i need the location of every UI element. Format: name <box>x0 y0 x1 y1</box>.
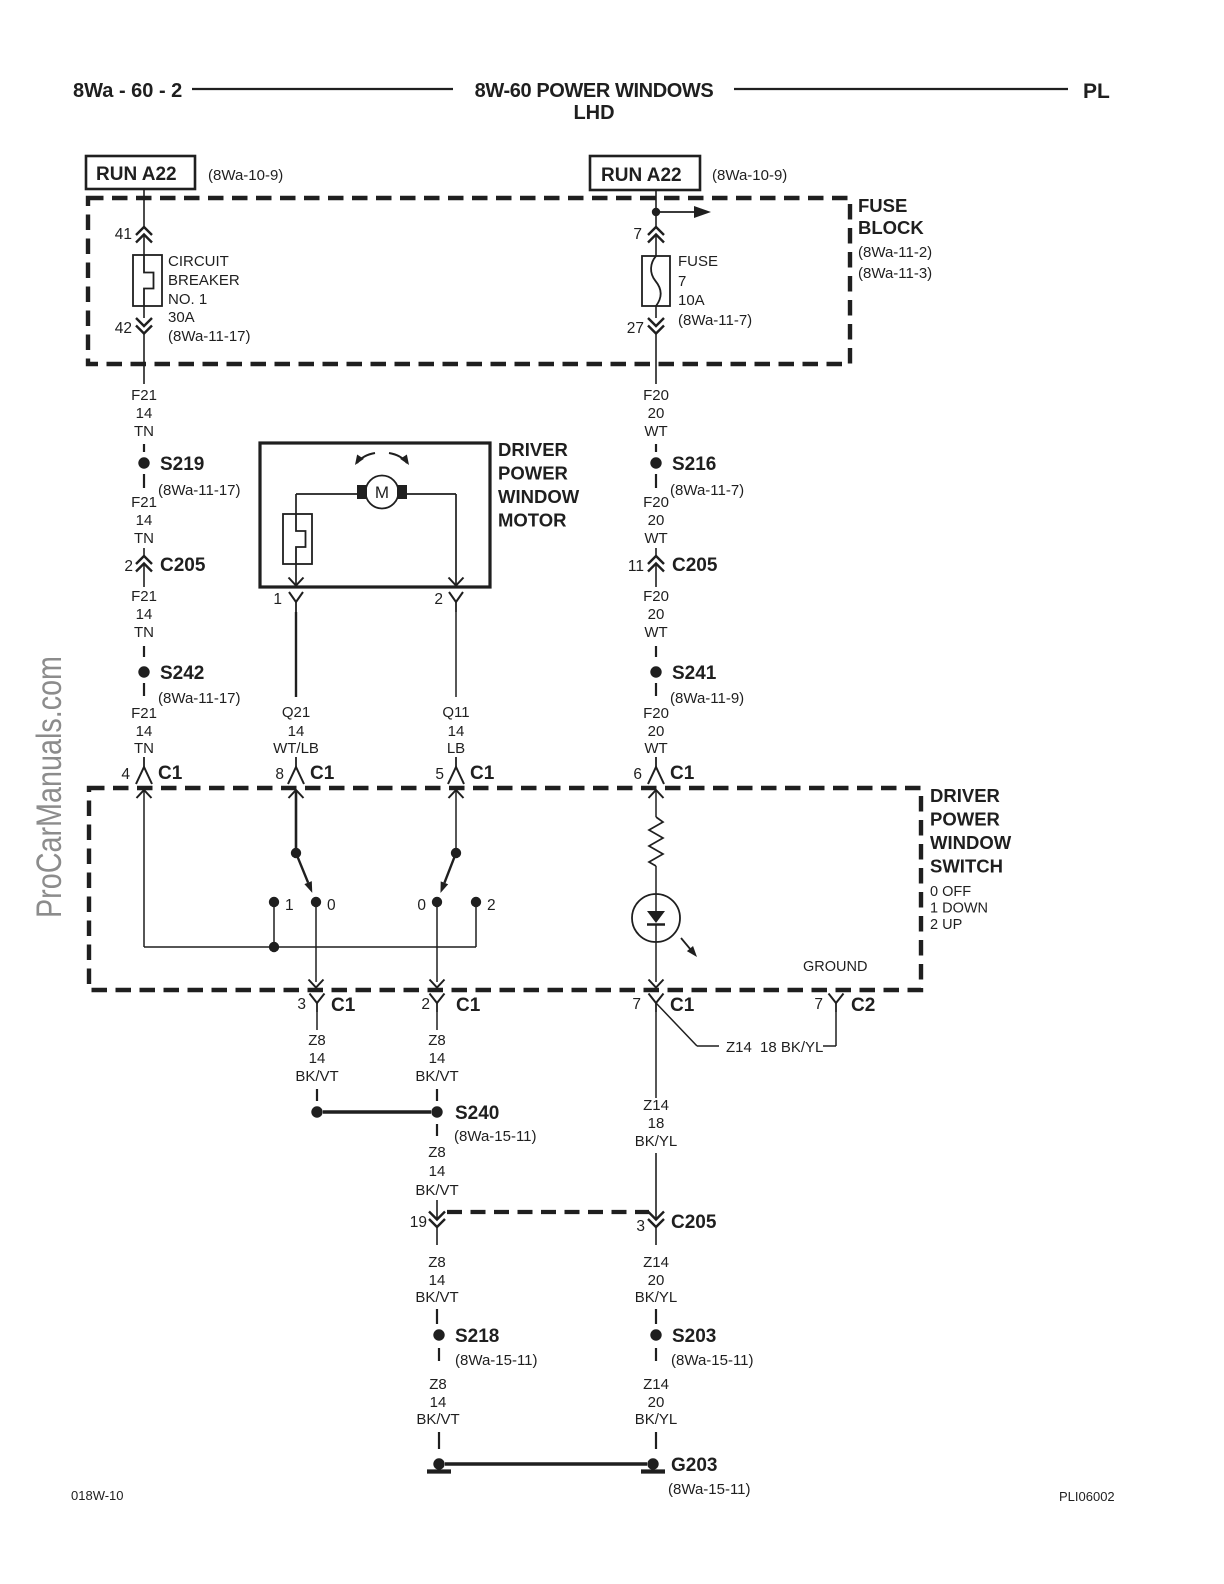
svg-text:BK/YL: BK/YL <box>635 1411 678 1428</box>
svg-text:LHD: LHD <box>573 102 614 124</box>
svg-text:18 BK/YL: 18 BK/YL <box>760 1039 823 1056</box>
svg-text:C1: C1 <box>470 763 495 784</box>
svg-text:WINDOW: WINDOW <box>930 832 1012 853</box>
svg-text:C1: C1 <box>310 763 335 784</box>
svg-text:RUN A22: RUN A22 <box>601 165 682 186</box>
svg-text:8Wa - 60 - 2: 8Wa - 60 - 2 <box>73 80 182 102</box>
svg-text:GROUND: GROUND <box>803 959 867 975</box>
svg-text:(8Wa-11-3): (8Wa-11-3) <box>858 265 932 282</box>
svg-text:F21: F21 <box>131 387 157 404</box>
svg-text:14: 14 <box>448 723 465 740</box>
svg-text:C1: C1 <box>670 763 695 784</box>
svg-text:C1: C1 <box>456 995 481 1016</box>
svg-text:BLOCK: BLOCK <box>858 217 924 238</box>
svg-text:1: 1 <box>273 591 282 608</box>
svg-text:14: 14 <box>288 723 305 740</box>
svg-text:BREAKER: BREAKER <box>168 272 240 289</box>
svg-text:20: 20 <box>648 1394 665 1411</box>
svg-text:4: 4 <box>121 766 130 783</box>
svg-text:14: 14 <box>136 405 153 422</box>
svg-text:(8Wa-11-17): (8Wa-11-17) <box>158 690 241 707</box>
svg-text:WT: WT <box>644 740 667 757</box>
svg-text:0: 0 <box>327 897 336 914</box>
svg-text:NO. 1: NO. 1 <box>168 291 207 308</box>
svg-text:14: 14 <box>136 512 153 529</box>
svg-text:(8Wa-11-2): (8Wa-11-2) <box>858 244 932 261</box>
svg-text:F20: F20 <box>643 387 669 404</box>
svg-text:WT: WT <box>644 624 667 641</box>
svg-text:RUN A22: RUN A22 <box>96 164 177 185</box>
svg-text:C205: C205 <box>672 555 718 576</box>
svg-text:6: 6 <box>633 766 642 783</box>
svg-text:14: 14 <box>136 723 153 740</box>
svg-text:10A: 10A <box>678 292 705 309</box>
svg-text:TN: TN <box>134 740 154 757</box>
svg-text:BK/VT: BK/VT <box>416 1411 459 1428</box>
svg-text:7: 7 <box>814 996 823 1013</box>
svg-text:(8Wa-11-7): (8Wa-11-7) <box>670 482 744 499</box>
svg-text:Z8: Z8 <box>429 1376 447 1393</box>
svg-text:S219: S219 <box>160 454 204 475</box>
svg-text:Z8: Z8 <box>428 1254 446 1271</box>
svg-text:7: 7 <box>633 226 642 243</box>
svg-text:(8Wa-10-9): (8Wa-10-9) <box>208 167 283 184</box>
svg-text:7: 7 <box>632 996 641 1013</box>
svg-text:Z14: Z14 <box>643 1376 669 1393</box>
svg-text:F20: F20 <box>643 705 669 722</box>
svg-text:(8Wa-15-11): (8Wa-15-11) <box>671 1352 754 1369</box>
svg-text:14: 14 <box>429 1272 446 1289</box>
svg-text:8: 8 <box>275 766 284 783</box>
svg-text:18: 18 <box>648 1115 665 1132</box>
svg-text:1: 1 <box>285 897 294 914</box>
svg-text:20: 20 <box>648 606 665 623</box>
svg-text:14: 14 <box>136 606 153 623</box>
svg-text:S203: S203 <box>672 1326 716 1347</box>
svg-text:2: 2 <box>124 558 133 575</box>
svg-text:F21: F21 <box>131 588 157 605</box>
svg-text:S242: S242 <box>160 663 204 684</box>
svg-text:LB: LB <box>447 740 465 757</box>
svg-text:F20: F20 <box>643 588 669 605</box>
svg-text:018W-10: 018W-10 <box>71 1488 124 1503</box>
svg-text:C1: C1 <box>331 995 356 1016</box>
svg-text:3: 3 <box>636 1218 645 1235</box>
svg-text:(8Wa-15-11): (8Wa-15-11) <box>455 1352 538 1369</box>
svg-text:0 OFF: 0 OFF <box>930 884 971 900</box>
svg-text:WT/LB: WT/LB <box>273 740 319 757</box>
svg-text:5: 5 <box>435 766 444 783</box>
svg-text:G203: G203 <box>671 1455 717 1476</box>
svg-text:(8Wa-11-7): (8Wa-11-7) <box>678 312 752 329</box>
svg-text:C2: C2 <box>851 995 875 1016</box>
svg-text:0: 0 <box>417 897 426 914</box>
svg-text:Z8: Z8 <box>308 1032 326 1049</box>
svg-text:20: 20 <box>648 723 665 740</box>
svg-text:DRIVER: DRIVER <box>498 439 568 460</box>
svg-text:M: M <box>375 483 389 502</box>
svg-text:POWER: POWER <box>930 809 1000 830</box>
svg-text:ProCarManuals.com: ProCarManuals.com <box>30 656 69 918</box>
svg-text:(8Wa-11-9): (8Wa-11-9) <box>670 690 744 707</box>
svg-text:14: 14 <box>430 1394 447 1411</box>
svg-text:Z14: Z14 <box>726 1039 752 1056</box>
svg-text:41: 41 <box>115 226 132 243</box>
svg-text:TN: TN <box>134 624 154 641</box>
svg-text:14: 14 <box>429 1050 446 1067</box>
svg-text:TN: TN <box>134 530 154 547</box>
svg-text:20: 20 <box>648 1272 665 1289</box>
svg-text:WT: WT <box>644 423 667 440</box>
svg-text:S216: S216 <box>672 454 716 475</box>
svg-text:F21: F21 <box>131 705 157 722</box>
svg-text:F21: F21 <box>131 494 157 511</box>
svg-text:7: 7 <box>678 273 686 290</box>
svg-text:CIRCUIT: CIRCUIT <box>168 253 229 270</box>
svg-text:BK/VT: BK/VT <box>415 1182 458 1199</box>
svg-text:SWITCH: SWITCH <box>930 856 1003 877</box>
svg-text:2: 2 <box>487 897 496 914</box>
svg-text:Z14: Z14 <box>643 1254 669 1271</box>
svg-text:S218: S218 <box>455 1326 499 1347</box>
svg-text:(8Wa-15-11): (8Wa-15-11) <box>454 1128 537 1145</box>
svg-text:WT: WT <box>644 530 667 547</box>
svg-text:8W-60 POWER WINDOWS: 8W-60 POWER WINDOWS <box>475 80 714 102</box>
svg-text:20: 20 <box>648 512 665 529</box>
svg-text:1 DOWN: 1 DOWN <box>930 901 988 917</box>
svg-text:DRIVER: DRIVER <box>930 785 1000 806</box>
svg-text:C205: C205 <box>160 555 206 576</box>
svg-text:FUSE: FUSE <box>678 253 718 270</box>
svg-text:20: 20 <box>648 405 665 422</box>
svg-text:(8Wa-10-9): (8Wa-10-9) <box>712 167 787 184</box>
svg-text:Q21: Q21 <box>282 704 310 721</box>
svg-text:MOTOR: MOTOR <box>498 510 567 531</box>
svg-text:2 UP: 2 UP <box>930 917 962 933</box>
svg-text:BK/VT: BK/VT <box>415 1289 458 1306</box>
svg-text:POWER: POWER <box>498 463 568 484</box>
svg-text:27: 27 <box>627 320 644 337</box>
svg-text:C1: C1 <box>670 995 695 1016</box>
svg-text:Z8: Z8 <box>428 1144 446 1161</box>
svg-text:2: 2 <box>434 591 443 608</box>
svg-text:C1: C1 <box>158 763 183 784</box>
svg-text:WINDOW: WINDOW <box>498 486 580 507</box>
svg-text:Z14: Z14 <box>643 1097 669 1114</box>
svg-text:(8Wa-11-17): (8Wa-11-17) <box>158 482 241 499</box>
svg-text:42: 42 <box>115 320 132 337</box>
svg-text:BK/VT: BK/VT <box>415 1068 458 1085</box>
svg-text:Z8: Z8 <box>428 1032 446 1049</box>
svg-text:S240: S240 <box>455 1103 499 1124</box>
svg-text:14: 14 <box>429 1163 446 1180</box>
svg-text:(8Wa-15-11): (8Wa-15-11) <box>668 1481 751 1498</box>
svg-text:Q11: Q11 <box>442 704 469 721</box>
svg-text:PLI06002: PLI06002 <box>1059 1489 1115 1504</box>
svg-text:TN: TN <box>134 423 154 440</box>
svg-text:(8Wa-11-17): (8Wa-11-17) <box>168 328 251 345</box>
svg-text:19: 19 <box>410 1214 427 1231</box>
svg-text:BK/YL: BK/YL <box>635 1133 678 1150</box>
svg-text:C205: C205 <box>671 1212 717 1233</box>
svg-text:BK/YL: BK/YL <box>635 1289 678 1306</box>
svg-text:14: 14 <box>309 1050 326 1067</box>
svg-text:11: 11 <box>628 558 644 575</box>
svg-text:30A: 30A <box>168 309 195 326</box>
svg-text:S241: S241 <box>672 663 717 684</box>
svg-text:FUSE: FUSE <box>858 195 907 216</box>
svg-text:PL: PL <box>1083 80 1110 103</box>
svg-text:3: 3 <box>297 996 306 1013</box>
svg-text:BK/VT: BK/VT <box>295 1068 338 1085</box>
svg-text:F20: F20 <box>643 494 669 511</box>
svg-text:2: 2 <box>421 996 430 1013</box>
